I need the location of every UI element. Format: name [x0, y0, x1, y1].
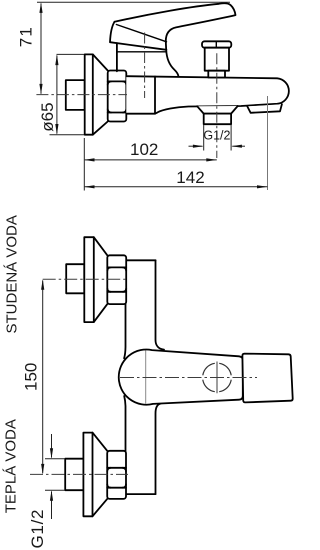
arrows G12 bottom — [50, 448, 53, 459]
spout flap — [247, 104, 282, 113]
upper connection — [66, 237, 126, 322]
upper connection centerline — [43, 278, 128, 280]
dim texts top view — [16, 26, 230, 187]
column top edge — [126, 259, 156, 261]
cone bottom slant — [93, 122, 108, 135]
dim o65 ext top — [57, 53, 85, 55]
centerline outlet — [216, 53, 218, 158]
lower connection — [65, 433, 126, 517]
ring line — [117, 51, 166, 53]
tail pipe — [65, 459, 83, 491]
dim 102 line — [85, 159, 217, 161]
handle dome — [110, 22, 166, 50]
lever front — [242, 354, 292, 403]
blade inner line — [116, 25, 166, 42]
cone slants — [93, 433, 108, 517]
column right edge upper + fillet — [156, 260, 165, 349]
dim G12 right — [232, 145, 245, 147]
dim 71 line — [40, 4, 42, 94]
arrows 142 — [84, 185, 95, 188]
body lozenge — [119, 350, 243, 405]
cone top slant — [93, 54, 108, 70]
column bottom edge — [126, 493, 156, 495]
arrows 150 — [41, 279, 44, 290]
wall ext line — [83, 138, 85, 191]
seam line body — [145, 351, 147, 404]
dim 142 line — [85, 186, 268, 188]
G12 ext right — [230, 125, 232, 151]
svg-text:ø65: ø65 — [38, 102, 57, 131]
G12 ext ticks — [45, 458, 65, 460]
svg-text:150: 150 — [22, 363, 41, 391]
svg-text:102: 102 — [130, 140, 158, 159]
column right edge lower + fillet — [156, 404, 161, 495]
G12 ext left — [203, 125, 205, 151]
svg-text:G1/2: G1/2 — [28, 509, 47, 549]
handle lever — [115, 3, 236, 76]
centerline horizontal connection — [36, 94, 127, 96]
arrows 102 — [84, 158, 95, 161]
body left edge — [116, 43, 118, 71]
tail pipe rect — [66, 80, 85, 110]
dim 150 line — [42, 281, 44, 474]
centerline spout / 142 ext — [267, 96, 269, 190]
svg-text:142: 142 — [176, 168, 204, 187]
circle vertical centerline — [216, 362, 218, 394]
cone slants — [94, 237, 108, 322]
arrows G12 — [193, 145, 204, 148]
dim G12 left — [189, 145, 203, 147]
wall connection side view — [66, 54, 127, 134]
lower connection centerline — [30, 473, 128, 475]
knob stem — [205, 48, 229, 71]
rotated texts bottom view — [3, 215, 21, 513]
flange plate — [84, 237, 94, 322]
svg-text:G1/2: G1/2 — [203, 129, 230, 143]
outlet thread rect — [204, 114, 231, 125]
nut — [108, 71, 127, 122]
dimensions bottom view — [43, 281, 65, 520]
outlet trapezoid — [197, 106, 238, 114]
G12 arrows lines — [51, 434, 53, 458]
centerlines bottom view — [30, 279, 257, 474]
tail pipe — [66, 264, 84, 293]
column left edge lower — [124, 396, 125, 494]
column — [124, 260, 164, 494]
centerline cartridge — [144, 33, 146, 99]
boss edge — [154, 77, 156, 114]
svg-text:STUDENÁ VODA: STUDENÁ VODA — [3, 215, 20, 333]
nut — [107, 451, 126, 499]
body centerline — [120, 377, 257, 379]
dim 71 ext top — [37, 1, 230, 3]
diverter knob cap — [202, 41, 231, 47]
nut — [107, 255, 126, 304]
dimensions top view — [37, 2, 268, 190]
column left edge upper — [124, 260, 125, 358]
flange plate — [85, 54, 93, 134]
flange plate — [83, 433, 92, 517]
knob base — [208, 71, 225, 78]
circle knob front — [203, 363, 231, 391]
arrows 71 — [39, 2, 42, 13]
arrows o65 — [55, 54, 58, 65]
dim o65 ext bottom — [50, 134, 85, 136]
body outline — [126, 76, 289, 114]
dim o65 line — [56, 56, 58, 134]
svg-text:TEPLÁ VODA: TEPLÁ VODA — [3, 419, 20, 513]
centerlines top view — [36, 33, 267, 191]
svg-text:71: 71 — [16, 26, 35, 47]
